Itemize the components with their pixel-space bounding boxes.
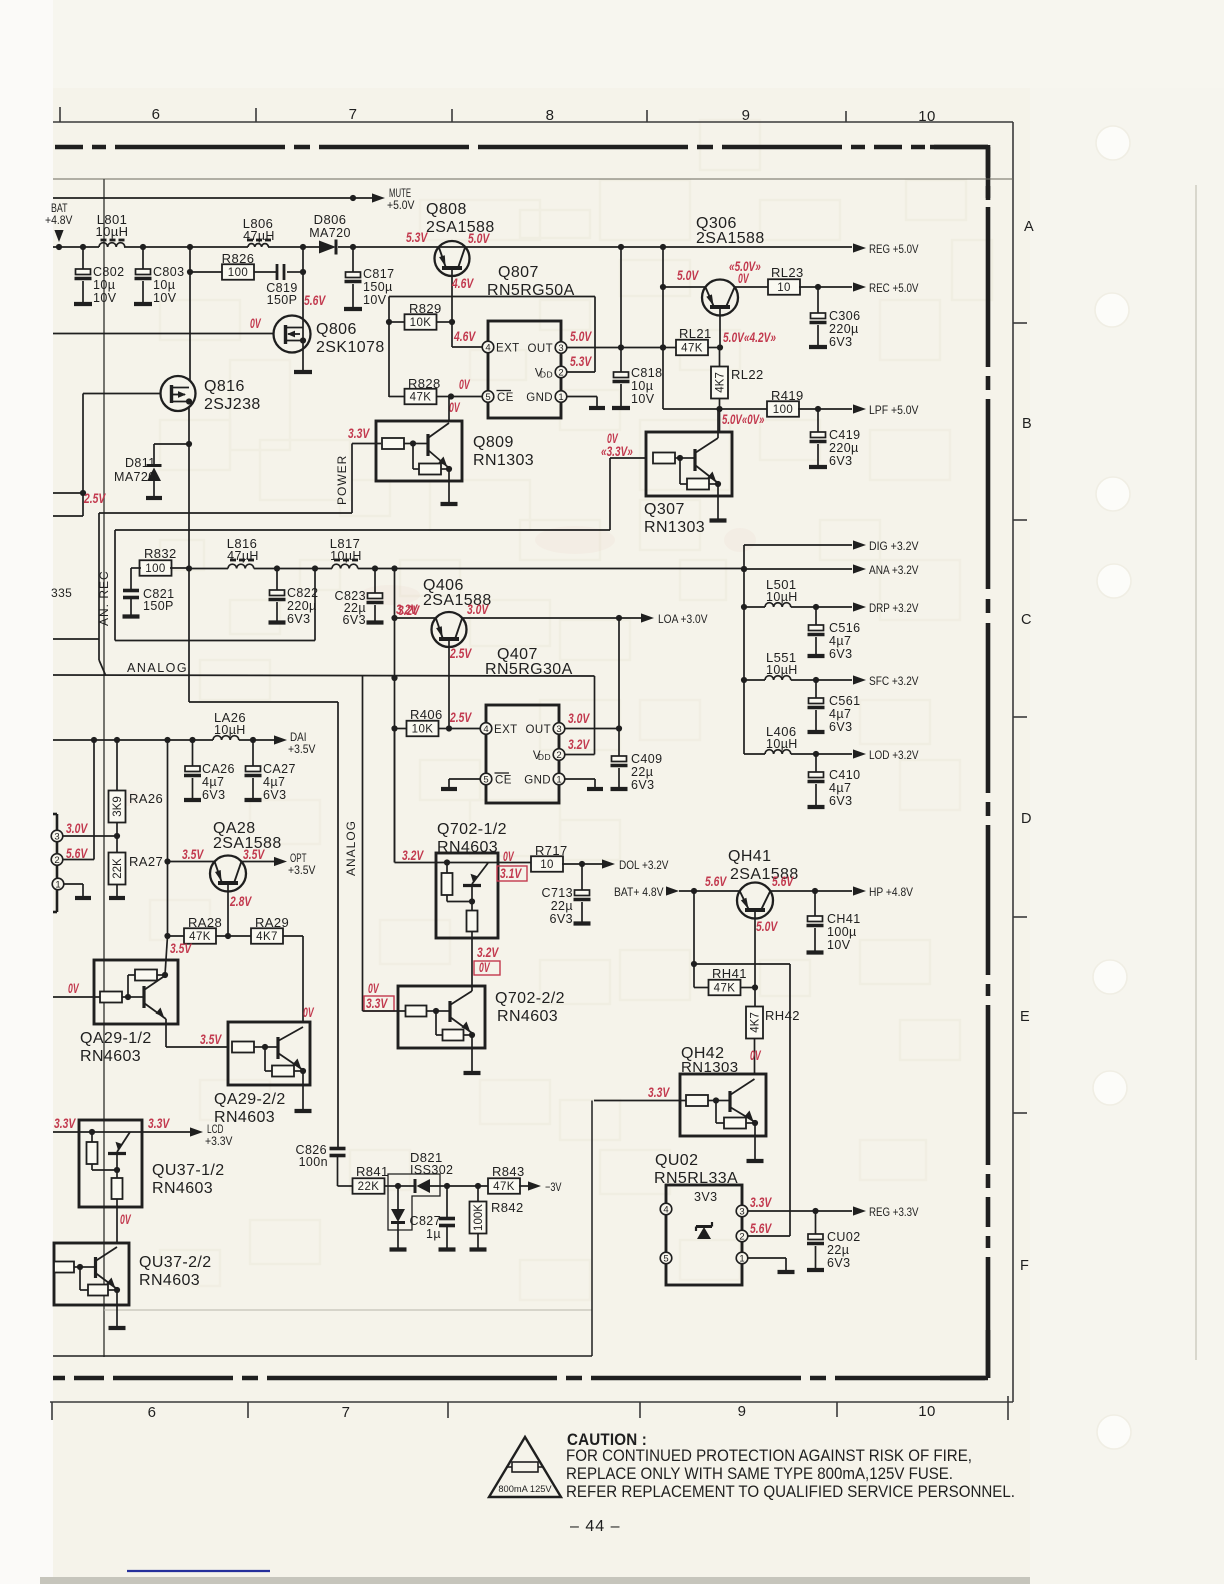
svg-text:10V: 10V (153, 291, 177, 305)
wire CE to pin5 (451, 396, 482, 398)
svg-text:DRP +3.2V: DRP +3.2V (869, 601, 919, 615)
svg-text:CE: CE (497, 392, 514, 404)
svg-text:47K: 47K (714, 983, 736, 995)
svg-text:QH41: QH41 (728, 848, 771, 865)
red 3.5V below junction (170, 941, 192, 956)
svg-text:QA29-1/2: QA29-1/2 (80, 1030, 152, 1047)
capacitor C819 (266, 264, 297, 307)
wire ANA 3.2V rail (189, 565, 747, 572)
inductor L816 (227, 536, 259, 569)
svg-text:3.5V: 3.5V (200, 1032, 222, 1047)
wire Q808 base to R829 node (449, 319, 482, 347)
inductor LA26 (213, 710, 246, 740)
svg-text:335: 335 (51, 586, 72, 600)
wire VDD feedback net (389, 297, 595, 398)
capacitor C419 (809, 409, 860, 468)
inductor L501 (744, 577, 819, 610)
wire QH41 base net (691, 891, 709, 988)
digital transistor QH42 (594, 1045, 766, 1161)
text caution line3 (566, 1482, 1015, 1501)
svg-text:8: 8 (546, 107, 555, 124)
red 0V below CE wire (449, 400, 460, 415)
svg-text:R829: R829 (409, 301, 442, 316)
svg-text:Q806: Q806 (316, 321, 357, 338)
svg-text:C561: C561 (829, 694, 860, 708)
wire OUT3 to C409 (565, 618, 622, 756)
arrow OPT +3.5V (274, 851, 316, 877)
svg-text:R419: R419 (771, 388, 804, 403)
thin inner border top (53, 178, 1013, 180)
svg-text:10µH: 10µH (96, 224, 129, 239)
svg-text:OUT: OUT (526, 724, 551, 736)
svg-text:1: 1 (739, 1253, 744, 1264)
svg-text:RN1303: RN1303 (644, 519, 705, 536)
svg-text:OUT: OUT (528, 343, 553, 355)
resistor R843 (488, 1164, 528, 1194)
svg-text:22µ: 22µ (631, 765, 653, 779)
svg-text:5: 5 (485, 392, 490, 403)
svg-text:6V3: 6V3 (829, 647, 852, 661)
red 5.0V«0V» below RL22 (722, 412, 765, 427)
svg-text:«3.3V»: «3.3V» (601, 444, 633, 459)
svg-text:R717: R717 (535, 843, 568, 858)
svg-text:3: 3 (739, 1206, 744, 1217)
svg-text:RN4603: RN4603 (437, 839, 498, 856)
wire to R841 (338, 1185, 354, 1187)
digital transistor Q307 (644, 409, 732, 536)
red 5.0V below QH41 (756, 919, 778, 934)
digital transistor Q702-1/2 (436, 821, 507, 986)
svg-text:0V: 0V (459, 377, 470, 392)
wire Q806 gate line (53, 333, 274, 335)
svg-text:150µ: 150µ (363, 280, 393, 294)
svg-text:2: 2 (556, 750, 561, 761)
svg-text:REC +5.0V: REC +5.0V (869, 281, 919, 295)
capacitor C822 (269, 569, 319, 627)
AN.REC boundary line (97, 570, 111, 675)
svg-text:C803: C803 (153, 265, 184, 279)
wire ANALOG long line (53, 675, 595, 755)
svg-text:RN4603: RN4603 (80, 1048, 141, 1065)
svg-text:5.6V: 5.6V (750, 1221, 772, 1236)
svg-text:3.1V: 3.1V (500, 866, 522, 881)
wire to x790 riser (694, 964, 790, 1236)
svg-text:5.6V: 5.6V (304, 293, 326, 308)
thin inner border left (103, 179, 105, 1357)
svg-text:CA26: CA26 (202, 762, 235, 776)
svg-text:E: E (1020, 1009, 1030, 1025)
svg-text:ANA +3.2V: ANA +3.2V (869, 563, 919, 577)
svg-text:5.3V: 5.3V (406, 230, 428, 245)
svg-text:C817: C817 (363, 267, 394, 281)
svg-text:POWER: POWER (335, 455, 349, 505)
digital transistor QU37-1/2 (53, 1120, 225, 1243)
svg-text:2.5V: 2.5V (449, 646, 472, 661)
text page number 44 (570, 1518, 620, 1535)
svg-text:REPLACE ONLY WITH SAME TYPE 80: REPLACE ONLY WITH SAME TYPE 800mA,125V F… (566, 1464, 953, 1483)
arrow LOA +3.0V (619, 612, 708, 626)
svg-text:CU02: CU02 (827, 1230, 861, 1244)
wire main vertical x189 (186, 272, 192, 702)
svg-text:R406: R406 (410, 707, 443, 722)
paper edge line right (1195, 185, 1197, 1360)
svg-text:+3.3V: +3.3V (205, 1134, 233, 1148)
svg-text:5.0V«4.2V»: 5.0V«4.2V» (723, 330, 776, 345)
red 3.2V left of Q406 (396, 602, 418, 617)
text ANALOG horizontal (127, 661, 188, 675)
red «5.0V» 0V right of Q306 (729, 259, 761, 286)
resistor RH42 (746, 1007, 800, 1075)
inductor L806 (243, 216, 275, 247)
svg-text:6V3: 6V3 (287, 612, 310, 626)
svg-text:5.3V: 5.3V (570, 354, 592, 369)
resistor RL21 (660, 326, 723, 355)
svg-text:2: 2 (558, 367, 563, 378)
pin 1 of QU02 (736, 1252, 748, 1264)
svg-text:2.5V: 2.5V (83, 491, 106, 506)
svg-text:R842: R842 (491, 1200, 524, 1215)
svg-text:0V: 0V (750, 1048, 761, 1063)
svg-text:CE: CE (495, 775, 512, 787)
svg-text:REFER REPLACEMENT TO QUALIFIED: REFER REPLACEMENT TO QUALIFIED SERVICE P… (566, 1482, 1015, 1501)
red 3.3V at left edge QU37 (54, 1116, 76, 1131)
svg-text:C419: C419 (829, 428, 860, 442)
red 3.0V at pin3 (66, 821, 88, 836)
wire POWER net (53, 444, 381, 640)
wire left edge stub upper (53, 490, 86, 496)
svg-text:R826: R826 (222, 251, 255, 266)
svg-text:1µ: 1µ (426, 1227, 441, 1241)
bottom ruler line (50, 1401, 1013, 1403)
text BAT+4.8V input (614, 885, 679, 899)
ANALOG vertical divider to Q702-2/2 (344, 676, 363, 1011)
capacitor C821 (123, 568, 175, 617)
svg-text:D811: D811 (125, 456, 156, 470)
wire bottom return net (53, 1101, 592, 1357)
right ruler ticks (1013, 323, 1027, 1113)
svg-text:3.5V: 3.5V (243, 847, 265, 862)
svg-text:47K: 47K (681, 343, 703, 355)
svg-text:RL22: RL22 (731, 367, 764, 382)
svg-text:10V: 10V (631, 392, 655, 406)
resistor RL22 (711, 348, 764, 433)
capacitor C713 (542, 864, 591, 926)
svg-text:C409: C409 (631, 752, 662, 766)
svg-text:4: 4 (483, 724, 488, 735)
zener D820 below (390, 1186, 407, 1250)
svg-text:GND: GND (526, 392, 553, 404)
svg-text:3K9: 3K9 (112, 796, 124, 816)
svg-text:0V: 0V (120, 1212, 131, 1227)
red boxed 0V (474, 960, 500, 975)
svg-text:6V3: 6V3 (829, 720, 852, 734)
wire branch to y641 (115, 569, 315, 641)
svg-text:D: D (1021, 811, 1032, 827)
svg-text:100: 100 (145, 563, 165, 575)
svg-text:5.0V: 5.0V (677, 268, 699, 283)
svg-text:+3.5V: +3.5V (288, 863, 316, 877)
svg-text:CH41: CH41 (827, 912, 861, 926)
svg-text:10V: 10V (93, 291, 117, 305)
wire CE5 ground (441, 779, 480, 789)
svg-text:4µ7: 4µ7 (829, 781, 851, 795)
svg-text:0V: 0V (303, 1005, 314, 1020)
red 3.5V left of QA28 (182, 847, 204, 862)
svg-text:6V3: 6V3 (263, 788, 286, 802)
red 3.2V at Q702-1/2 input (402, 848, 424, 863)
arrow HP +4.8V (853, 885, 913, 899)
svg-text:100n: 100n (299, 1155, 328, 1169)
red 0V below RH42 (750, 1048, 761, 1063)
svg-text:4: 4 (485, 342, 490, 353)
svg-text:REG +3.3V: REG +3.3V (869, 1205, 919, 1219)
resistor R717 (498, 843, 585, 872)
svg-text:100: 100 (228, 267, 248, 279)
svg-text:RH41: RH41 (712, 966, 747, 981)
svg-text:5: 5 (663, 1253, 668, 1264)
svg-text:10V: 10V (363, 293, 387, 307)
transistor QA28 (210, 820, 282, 936)
red 3.2V above boxed 0V (477, 945, 499, 960)
svg-text:C713: C713 (542, 886, 573, 900)
svg-text:C410: C410 (829, 768, 860, 782)
svg-text:C827: C827 (410, 1214, 441, 1228)
svg-text:10: 10 (918, 108, 936, 125)
inductor L817 (330, 536, 362, 569)
resistor RA28 (184, 915, 222, 944)
svg-text:– 44 –: – 44 – (570, 1518, 620, 1535)
svg-text:DD: DD (540, 370, 553, 380)
red 3.3V at QU02 pin3 (750, 1195, 772, 1210)
digital transistor QU37-2/2 (54, 1243, 212, 1328)
svg-text:−3V: −3V (545, 1180, 562, 1194)
resistor R406 (395, 707, 482, 736)
svg-text:47K: 47K (493, 1181, 515, 1193)
resistor RL23 (735, 265, 822, 295)
red 3.2V at VDD (568, 737, 590, 752)
wire x189 jog to x338 (189, 702, 338, 1147)
svg-text:3.2V: 3.2V (402, 848, 424, 863)
svg-text:DOL +3.2V: DOL +3.2V (619, 858, 669, 872)
resistor R419 (663, 388, 821, 417)
wire LOA line (395, 615, 623, 621)
svg-text:3.3V: 3.3V (348, 426, 370, 441)
svg-text:22K: 22K (358, 1181, 380, 1193)
svg-text:Q809: Q809 (473, 434, 514, 451)
svg-text:22K: 22K (112, 858, 124, 879)
capacitor C817 (344, 247, 394, 309)
svg-text:RN1303: RN1303 (681, 1059, 738, 1076)
svg-text:ANALOG: ANALOG (127, 661, 188, 675)
svg-text:9: 9 (738, 1403, 747, 1420)
svg-text:LOA +3.0V: LOA +3.0V (658, 612, 708, 626)
svg-text:7: 7 (342, 1404, 351, 1421)
wire QA28 net vertical x167 (164, 740, 170, 939)
wire main +B rail (53, 244, 852, 250)
wire 3.2V corner to Q702-1/2 (395, 729, 437, 863)
capacitor C802 (74, 247, 124, 305)
resistor R842 (470, 1186, 524, 1250)
svg-text:7: 7 (349, 106, 358, 123)
svg-text:3.3V: 3.3V (366, 996, 388, 1011)
svg-text:Q816: Q816 (204, 378, 245, 395)
red 0V «3.3V» at Q307 input (601, 431, 633, 459)
svg-text:47K: 47K (189, 931, 211, 943)
svg-text:2.8V: 2.8V (229, 894, 252, 909)
svg-text:6V3: 6V3 (631, 778, 654, 792)
bottom dash-dot border (53, 1376, 985, 1381)
red 0V at Q806 gate (250, 316, 261, 331)
svg-text:RL23: RL23 (771, 265, 804, 280)
svg-text:3.0V: 3.0V (467, 602, 489, 617)
svg-text:0V: 0V (368, 981, 379, 996)
svg-text:3.3V: 3.3V (750, 1195, 772, 1210)
svg-text:HP +4.8V: HP +4.8V (869, 885, 913, 899)
svg-text:220µ: 220µ (829, 322, 859, 336)
border corner solid top-right (930, 145, 988, 200)
svg-text:QA29-2/2: QA29-2/2 (214, 1091, 286, 1108)
resistor RA27 (109, 836, 164, 898)
resistor RH41 (709, 966, 756, 995)
svg-text:6V3: 6V3 (550, 912, 573, 926)
svg-text:RH42: RH42 (765, 1008, 800, 1023)
svg-text:+3.5V: +3.5V (288, 742, 316, 756)
red 5.6V at QU02 pin2 (750, 1221, 772, 1236)
svg-text:22µ: 22µ (827, 1243, 849, 1257)
wire D821 to R843 (444, 1183, 489, 1189)
svg-text:2: 2 (54, 855, 59, 866)
svg-text:6V3: 6V3 (829, 454, 852, 468)
svg-text:47K: 47K (410, 392, 432, 404)
svg-text:RA27: RA27 (129, 854, 163, 869)
red 5.0V left of Q306 (677, 268, 699, 283)
svg-text:RA26: RA26 (129, 791, 163, 806)
svg-text:+4.8V: +4.8V (45, 213, 73, 227)
svg-text:Q807: Q807 (498, 264, 539, 281)
svg-text:10µH: 10µH (766, 590, 798, 604)
top ruler numbers (152, 106, 936, 125)
wire GND pin1 to ground (567, 397, 605, 409)
red 5.0V at OUT (570, 329, 592, 344)
red 0V between QU37 (120, 1212, 131, 1227)
svg-text:RN5RG30A: RN5RG30A (485, 661, 573, 678)
svg-text:3.5V: 3.5V (182, 847, 204, 862)
red 4.6V above EXT (453, 329, 476, 344)
pin 5 of QU02 (660, 1252, 672, 1264)
svg-text:3: 3 (558, 343, 563, 354)
svg-text:3.2V: 3.2V (477, 945, 499, 960)
svg-text:DIG +3.2V: DIG +3.2V (869, 539, 919, 553)
svg-text:1: 1 (556, 774, 561, 785)
wire 3.2V vertical x394 (391, 569, 397, 863)
capacitor CU02 (807, 1211, 861, 1270)
svg-text:R832: R832 (144, 546, 177, 561)
capacitor C306 (809, 287, 860, 349)
pin 5 CE of Q807 (482, 391, 514, 405)
svg-text:LOD +3.2V: LOD +3.2V (869, 748, 919, 762)
svg-text:6: 6 (148, 1404, 157, 1421)
svg-text:10µH: 10µH (214, 723, 246, 737)
wire Q806 drain-source vertical (294, 272, 312, 372)
svg-text:10µH: 10µH (330, 549, 362, 563)
svg-text:3.3V: 3.3V (148, 1116, 170, 1131)
wire Q307 input (115, 458, 645, 641)
svg-text:3.5V: 3.5V (170, 941, 192, 956)
top dash-dot border (55, 145, 988, 150)
arrow DOL +3.2V (582, 858, 669, 872)
svg-text:6V3: 6V3 (829, 794, 852, 808)
bottom ruler ticks (52, 1396, 1008, 1420)
svg-text:EXT: EXT (494, 724, 518, 736)
arrow LCD +3.3V (142, 1122, 233, 1148)
ghost bleed-through texture (150, 120, 992, 1300)
red 3.0V at OUT (568, 711, 590, 726)
svg-text:10µ: 10µ (93, 278, 115, 292)
wire pin3 REG 3.3V (748, 1208, 852, 1214)
arrow MUTE +5.0V (353, 186, 415, 212)
svg-text:REG +5.0V: REG +5.0V (869, 242, 919, 256)
svg-text:1: 1 (558, 392, 563, 403)
red 0V at Q702-1/2 output (503, 849, 514, 864)
red 0V at QA29-1/2 input (68, 981, 79, 996)
digital transistor QA29-1/2 (53, 936, 228, 1065)
pin 1 GND of Q407 (524, 773, 565, 786)
red 3.2V at rail (398, 603, 420, 618)
svg-text:C818: C818 (631, 366, 662, 380)
capacitor C561 (808, 680, 861, 734)
svg-text:QU37-2/2: QU37-2/2 (139, 1254, 212, 1271)
svg-text:3.0V: 3.0V (66, 821, 88, 836)
resistor R832 (131, 546, 189, 576)
svg-text:3: 3 (54, 831, 59, 842)
transistor Q806 MOSFET (274, 316, 385, 357)
red 3.0V right of Q406 (467, 602, 489, 617)
svg-text:QU37-1/2: QU37-1/2 (152, 1162, 225, 1179)
svg-text:R843: R843 (492, 1164, 525, 1179)
red 5.0V«4.2V» (723, 330, 776, 345)
red 5.6V near Q806 (304, 293, 326, 308)
pin 2 of QU02 (736, 1230, 748, 1242)
red boxed 3.3V (364, 996, 394, 1011)
bottom scan band (40, 1577, 1030, 1584)
inductor L551 (744, 650, 819, 683)
svg-text:4.6V: 4.6V (453, 329, 476, 344)
svg-text:RN1303: RN1303 (473, 452, 534, 469)
digital transistor QA29-2/2 (214, 1022, 312, 1126)
pin 5 CE of Q407 (480, 773, 512, 787)
capacitor CH41 (807, 891, 861, 953)
red 2.5V at R406 (449, 710, 472, 725)
svg-text:3V3: 3V3 (694, 1190, 717, 1204)
svg-text:3.2V: 3.2V (568, 737, 590, 752)
svg-text:5: 5 (483, 774, 488, 785)
svg-text:C516: C516 (829, 621, 860, 635)
arrow DRP +3.2V (816, 601, 919, 615)
svg-text:6V3: 6V3 (827, 1256, 850, 1270)
svg-text:C306: C306 (829, 309, 860, 323)
svg-text:ISS302: ISS302 (410, 1163, 453, 1177)
svg-text:10K: 10K (412, 724, 434, 736)
svg-text:B: B (1022, 416, 1032, 432)
wire QA28 leads (168, 861, 275, 863)
text caution line1 (566, 1446, 972, 1465)
svg-text:5.0V: 5.0V (756, 919, 778, 934)
transistor Q816 MOSFET (161, 376, 261, 413)
red 0V right of RA29 wire (303, 1005, 314, 1020)
svg-text:4µ7: 4µ7 (829, 634, 851, 648)
red 5.3V at VDD (570, 354, 592, 369)
svg-text:Q702-1/2: Q702-1/2 (437, 821, 507, 838)
